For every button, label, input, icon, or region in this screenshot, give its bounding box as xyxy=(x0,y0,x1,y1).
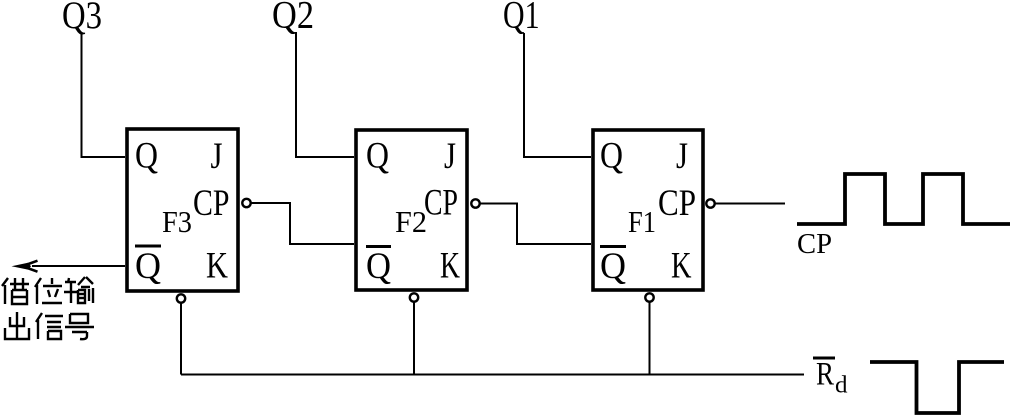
wire F1 Rd down xyxy=(649,302,651,375)
svg-text:Q: Q xyxy=(135,136,158,177)
inversion bubble CP of F1 xyxy=(706,199,714,207)
pin label Qbar of F3 (overline) xyxy=(135,245,161,248)
wire CP input to F1 xyxy=(716,203,786,205)
char jie (borrow) xyxy=(2,278,29,304)
pin label Qbar of F2 (overline) xyxy=(366,245,391,248)
svg-text:F1: F1 xyxy=(628,204,656,239)
svg-text:CP: CP xyxy=(193,183,230,224)
svg-text:J: J xyxy=(211,136,223,177)
inversion bubble Rd of F1 xyxy=(645,293,653,301)
inversion bubble Rd of F2 xyxy=(410,293,418,301)
svg-text:Q: Q xyxy=(600,136,623,177)
svg-text:R: R xyxy=(816,357,834,393)
svg-text:CP: CP xyxy=(658,183,696,224)
net label Rd (overline) xyxy=(813,357,835,360)
wire Rd bus xyxy=(181,374,804,376)
svg-text:Q3: Q3 xyxy=(62,0,102,37)
svg-text:CP: CP xyxy=(797,228,832,260)
wire borrow output from F3 Qbar xyxy=(32,265,125,267)
svg-text:K: K xyxy=(671,246,692,287)
svg-text:K: K xyxy=(440,246,460,287)
inversion bubble CP of F3 xyxy=(242,199,250,207)
wire F3 Rd down xyxy=(180,303,182,375)
svg-text:d: d xyxy=(835,373,848,399)
char wei (position) xyxy=(35,278,62,304)
svg-text:Q: Q xyxy=(135,246,161,287)
wire Q2 to F2 Q output xyxy=(296,32,354,157)
svg-text:Q: Q xyxy=(366,246,391,287)
wire Q3 to F3 Q output xyxy=(82,32,126,157)
wire Q1 to F1 Q output xyxy=(524,33,591,157)
inversion bubble CP of F2 xyxy=(471,199,479,207)
svg-text:J: J xyxy=(444,136,456,177)
svg-text:F3: F3 xyxy=(162,204,192,239)
svg-text:Q1: Q1 xyxy=(503,0,540,37)
Rd reset waveform xyxy=(870,362,1004,413)
flip-flop F1 box xyxy=(593,130,703,290)
wire F2 Rd down xyxy=(413,302,415,375)
text borrow output signal (Chinese, hand-drawn strokes) xyxy=(2,277,94,339)
flip-flop F2 box xyxy=(356,130,467,290)
char shu (output/transmit) xyxy=(64,277,93,303)
pin label Qbar of F1 (overline) xyxy=(600,245,626,248)
arrowhead borrow output xyxy=(12,263,32,270)
svg-text:F2: F2 xyxy=(395,204,427,239)
char chu (out) xyxy=(5,312,29,339)
svg-text:Q: Q xyxy=(600,246,626,287)
flip-flop F3 box xyxy=(127,129,238,291)
wire F2 Qbar to F3 CP xyxy=(252,203,355,244)
svg-text:CP: CP xyxy=(424,183,458,224)
char hao (number) xyxy=(65,314,94,339)
svg-text:Q: Q xyxy=(366,136,389,177)
wire F1 Qbar to F2 CP xyxy=(481,204,592,245)
CP clock waveform xyxy=(797,174,1010,224)
svg-text:Q2: Q2 xyxy=(272,0,314,37)
char xin (signal/letter) xyxy=(36,313,63,339)
inversion bubble Rd of F3 xyxy=(177,294,185,302)
svg-text:J: J xyxy=(676,136,688,177)
svg-text:K: K xyxy=(206,246,228,287)
